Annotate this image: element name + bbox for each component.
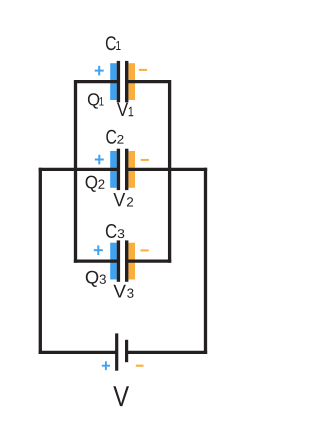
label V <box>113 386 129 406</box>
capacitor C1 black plates <box>117 61 129 102</box>
wire box2 right vertical <box>168 168 171 263</box>
capacitor C2 minus sign <box>141 159 149 161</box>
capacitor C2 plus sign <box>95 155 104 165</box>
label Q3 <box>86 271 98 287</box>
label Q1 <box>88 93 99 108</box>
label C2 <box>106 130 116 144</box>
wire box1 right vertical <box>168 80 171 171</box>
capacitor C3 black plates <box>117 240 129 281</box>
label C3 <box>106 224 117 238</box>
wire outer left vertical <box>39 168 42 354</box>
label V3 <box>113 285 126 298</box>
wire C2 left <box>39 168 120 171</box>
label V2 <box>113 193 125 206</box>
wire C2 right <box>126 168 207 171</box>
wire battery right <box>127 351 208 354</box>
wire box1 left vertical <box>74 80 77 171</box>
capacitor C3 plus sign <box>94 245 103 255</box>
label C1 <box>106 36 116 50</box>
wire C3 right <box>126 259 171 262</box>
wire outer right vertical <box>204 168 207 354</box>
capacitor C1 plus sign <box>95 66 104 76</box>
capacitor C2 colored plates <box>110 151 135 188</box>
wire box2 left vertical <box>74 168 77 263</box>
wire C1 left <box>75 80 120 83</box>
battery minus sign <box>136 365 144 367</box>
capacitor C1 minus sign <box>139 69 147 71</box>
wire battery left <box>39 351 117 354</box>
capacitor C3 minus sign <box>141 249 149 251</box>
battery V long plate (+) <box>115 333 118 370</box>
capacitor C3 colored plates <box>110 243 135 280</box>
capacitor C2 black plates <box>117 149 129 190</box>
capacitor C1 colored plates <box>110 63 135 100</box>
battery V short plate (-) <box>125 340 128 362</box>
label Q2 <box>86 176 98 192</box>
label V1 <box>117 103 128 116</box>
wire C3 left <box>74 259 120 262</box>
wire C1 right <box>126 80 170 83</box>
battery plus sign <box>102 361 110 370</box>
